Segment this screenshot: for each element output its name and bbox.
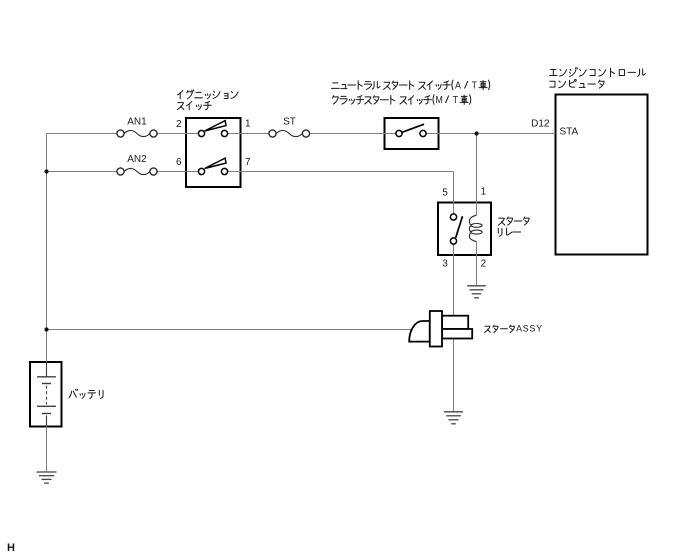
label: engine control computer (katakana) line2 [550,81,555,87]
ignition switch contact pin6 [198,168,204,174]
svg-text:ASSY: ASSY [516,324,542,334]
label: engine control computer (katakana) line1 [550,69,558,75]
svg-text:T: T [472,80,477,91]
starter ASSY upper body rectangle [442,316,468,329]
svg-text:2: 2 [176,119,182,130]
NSS contact left [396,130,402,136]
ignition switch contact pin2 [198,130,204,136]
svg-text:AN2: AN2 [127,154,147,165]
svg-text:AN1: AN1 [127,116,147,127]
wire: row1 bus to fuse AN1 [47,133,117,135]
ignition switch lever row2 [205,158,226,168]
NSS contact right [420,130,426,136]
wire: row2 bus junction to fuse AN2 [47,171,117,173]
ground (starter ASSY) [444,411,463,413]
wire: relay coil bottom lead to pin 2 [476,242,478,255]
label: ignition switch (katakana) line2 [177,103,184,110]
junction node D12 branch [474,131,478,135]
relay switch lever [456,216,463,238]
starter ASSY motor D-shape [409,321,430,342]
wire: ignition pin 7 horizontal run [225,171,454,173]
svg-text:2: 2 [481,258,487,269]
fuse AN1 [124,130,150,136]
svg-text:1: 1 [481,186,487,197]
junction node: bus/row2 [44,169,48,173]
junction node: bus/battery [44,327,48,331]
battery cell plates [37,377,56,414]
relay contact top (pin 5) [450,214,456,220]
NSS lever [402,124,424,132]
svg-text:T: T [453,95,458,106]
ECU (engine control computer) box [556,95,648,255]
ignition switch contact pin7 [221,168,227,174]
svg-text:M: M [435,95,443,106]
fuse ST [276,130,302,136]
wire: battery negative down to ground [46,427,48,472]
svg-text:H: H [7,542,15,554]
starter relay box [438,203,491,256]
svg-text:7: 7 [245,157,251,168]
wire: relay pin 2 down to ground [476,255,478,286]
label: starter relay (katakana) line1 [498,218,505,225]
starter ASSY lower body rectangle [442,329,472,339]
wire: fuse ST to neutral start switch contact [310,133,399,135]
label: ignition switch (katakana) line1 [178,91,183,99]
fuse AN2 [124,168,150,174]
ground (battery) [37,471,57,473]
svg-text:/: / [464,80,469,91]
wire: fuse AN2 to ignition switch pin 6 [157,171,201,173]
starter ASSY solenoid plunger rectangle [430,311,442,347]
wire: fuse AN1 to ignition switch pin 2 [157,133,201,135]
wire: down into relay pin 5 contact [453,172,455,218]
label: clutch start switch (M/T) [332,96,338,104]
battery internal wire bottom [46,416,48,427]
wire: neutral start switch to ECU terminal STA [423,133,556,135]
label: neutral start switch (A/T) [331,83,339,89]
relay coil [469,215,482,242]
svg-text:ST: ST [283,116,296,127]
ignition switch contact pin1 [221,130,227,136]
label: battery (katakana) [69,389,78,398]
wire: ignition pin 1 to fuse ST [225,133,269,135]
svg-text:3: 3 [442,258,448,269]
wire: starter ASSY down to ground [453,339,455,412]
ignition switch box [186,118,241,187]
ground (relay pin 2) [467,285,486,287]
battery internal wire top [46,362,48,377]
label: starter relay (katakana) line2 [498,228,502,236]
battery box [30,362,62,427]
svg-text:/: / [445,95,450,106]
label: starter ASSY [485,326,491,332]
wire: node D12 branch down to relay pin 1 coil [476,134,478,216]
relay contact bottom (pin 3) [450,238,456,244]
svg-text:1: 1 [245,119,251,130]
svg-text:STA: STA [560,127,579,138]
svg-text:5: 5 [442,187,448,198]
ignition switch lever row1 [205,121,226,131]
svg-text:D12: D12 [531,119,550,130]
svg-text:A: A [455,80,461,91]
wire: relay pin 3 contact down to starter ASSY [453,241,455,317]
wire: battery positive vertical bus [46,134,48,363]
wire: bottom bus battery to starter ASSY [47,329,412,331]
neutral/clutch start switch box [385,118,439,149]
svg-text:6: 6 [176,157,182,168]
